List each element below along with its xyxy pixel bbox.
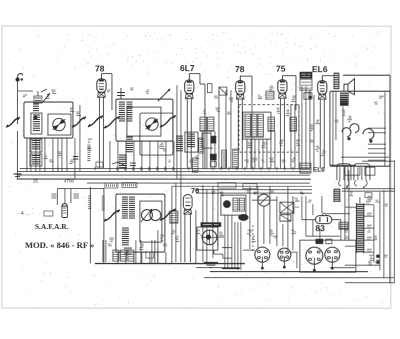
svg-text:S.A.F.A.R.: S.A.F.A.R. xyxy=(35,222,69,231)
svg-text:76: 76 xyxy=(191,186,199,195)
svg-text:EL6: EL6 xyxy=(313,167,325,174)
svg-text:75: 75 xyxy=(276,64,286,74)
svg-text:83: 83 xyxy=(315,223,325,233)
svg-text:· 4 …: · 4 … xyxy=(18,211,30,217)
svg-text:6L7: 6L7 xyxy=(180,63,195,73)
svg-text:78: 78 xyxy=(95,64,105,74)
svg-text:EL6: EL6 xyxy=(312,64,328,74)
svg-text:MOD. « 846 - RF »: MOD. « 846 - RF » xyxy=(25,240,94,250)
svg-text:78: 78 xyxy=(235,64,245,74)
svg-text:4700: 4700 xyxy=(64,179,75,184)
svg-text:25: 25 xyxy=(33,179,39,184)
